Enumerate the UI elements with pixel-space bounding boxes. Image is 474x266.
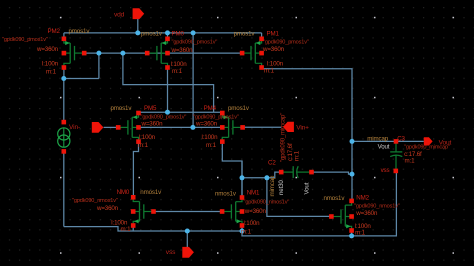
svg-text:PM4: PM4 (204, 105, 217, 112)
svg-text:PM0: PM0 (172, 31, 185, 38)
svg-text:NM2: NM2 (356, 195, 369, 202)
svg-text:"gpdk090_nmos1v": "gpdk090_nmos1v" (72, 198, 118, 204)
svg-text:"gpdk090_pmos1v": "gpdk090_pmos1v" (2, 37, 48, 43)
svg-text:m:1: m:1 (206, 142, 217, 149)
svg-text:vss: vss (166, 249, 176, 256)
svg-text:NM1: NM1 (247, 190, 260, 197)
svg-text:m:1: m:1 (172, 68, 183, 75)
svg-text:pmos1v: pmos1v (228, 105, 250, 112)
svg-text:m:1: m:1 (355, 230, 366, 237)
svg-text:nmos1v: nmos1v (324, 195, 346, 202)
svg-text:nmos1v: nmos1v (215, 191, 237, 198)
svg-text:mimcap: mimcap (269, 175, 276, 196)
svg-text:w=360n: w=360n (244, 208, 267, 215)
svg-text:pmos1v: pmos1v (234, 31, 256, 38)
svg-text:w=360n: w=360n (141, 121, 164, 128)
svg-text:"gpdk090_mimcap": "gpdk090_mimcap" (281, 113, 287, 162)
svg-text:C3: C3 (397, 135, 405, 142)
svg-text:w=360n: w=360n (96, 205, 119, 212)
svg-text:l:100n: l:100n (42, 61, 59, 68)
svg-text:pmos1v: pmos1v (111, 105, 133, 112)
svg-text:m:1: m:1 (241, 228, 252, 235)
svg-text:"gpdk090_nmos1v": "gpdk090_nmos1v" (354, 204, 400, 210)
svg-text:"gpdk090_pmos1v": "gpdk090_pmos1v" (193, 114, 239, 120)
svg-text:m:1: m:1 (138, 142, 149, 149)
svg-text:w=360n: w=360n (171, 47, 194, 54)
svg-text:C2: C2 (268, 160, 276, 167)
svg-text:mimcap: mimcap (367, 135, 388, 142)
svg-text:m:1: m:1 (264, 67, 275, 74)
svg-text:w=360n: w=360n (355, 210, 378, 217)
svg-text:"gpdk090_pmos1v": "gpdk090_pmos1v" (172, 39, 218, 45)
svg-text:l:100n: l:100n (202, 134, 219, 141)
svg-text:w=360n: w=360n (36, 46, 59, 53)
svg-text:m:1: m:1 (294, 150, 301, 161)
svg-text:"gpdk090_nmos1v": "gpdk090_nmos1v" (244, 200, 290, 206)
svg-text:Vin+: Vin+ (296, 125, 309, 132)
svg-text:w=360n: w=360n (262, 46, 285, 53)
svg-text:Vout: Vout (439, 139, 452, 146)
svg-text:m:1: m:1 (121, 226, 132, 233)
svg-text:m:1: m:1 (405, 157, 416, 164)
svg-text:pmos1v: pmos1v (141, 31, 163, 38)
svg-text:"gpdk090_pmos1v": "gpdk090_pmos1v" (263, 40, 309, 46)
svg-text:PM1: PM1 (267, 31, 280, 38)
svg-text:net30: net30 (278, 180, 285, 195)
svg-text:w=360n: w=360n (195, 121, 218, 128)
svg-text:pmos1v: pmos1v (69, 28, 91, 35)
svg-text:PM2: PM2 (48, 28, 61, 35)
svg-text:l:100n: l:100n (139, 134, 156, 141)
svg-text:vss: vss (381, 167, 390, 174)
svg-text:l:100n: l:100n (244, 220, 261, 227)
svg-text:PM5: PM5 (144, 105, 157, 112)
svg-text:m:1: m:1 (46, 68, 57, 75)
svg-text:NM0: NM0 (117, 189, 130, 196)
svg-text:vdd: vdd (114, 11, 125, 18)
svg-text:nmos1v: nmos1v (140, 189, 162, 196)
svg-text:Vout: Vout (303, 182, 310, 194)
svg-text:"gpdk090_pmos1v": "gpdk090_pmos1v" (141, 114, 187, 120)
svg-text:Vin-: Vin- (69, 124, 80, 131)
svg-text:Vout: Vout (378, 144, 390, 151)
